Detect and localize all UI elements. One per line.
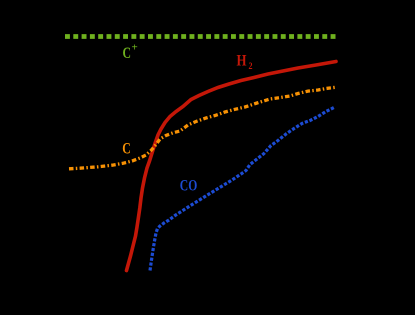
svg-text:C: C <box>123 45 132 62</box>
svg-text:+: + <box>132 42 138 54</box>
svg-text:H: H <box>237 53 247 70</box>
svg-text:CO: CO <box>180 178 198 195</box>
svg-text:C: C <box>122 141 131 158</box>
svg-text:2: 2 <box>249 61 253 71</box>
